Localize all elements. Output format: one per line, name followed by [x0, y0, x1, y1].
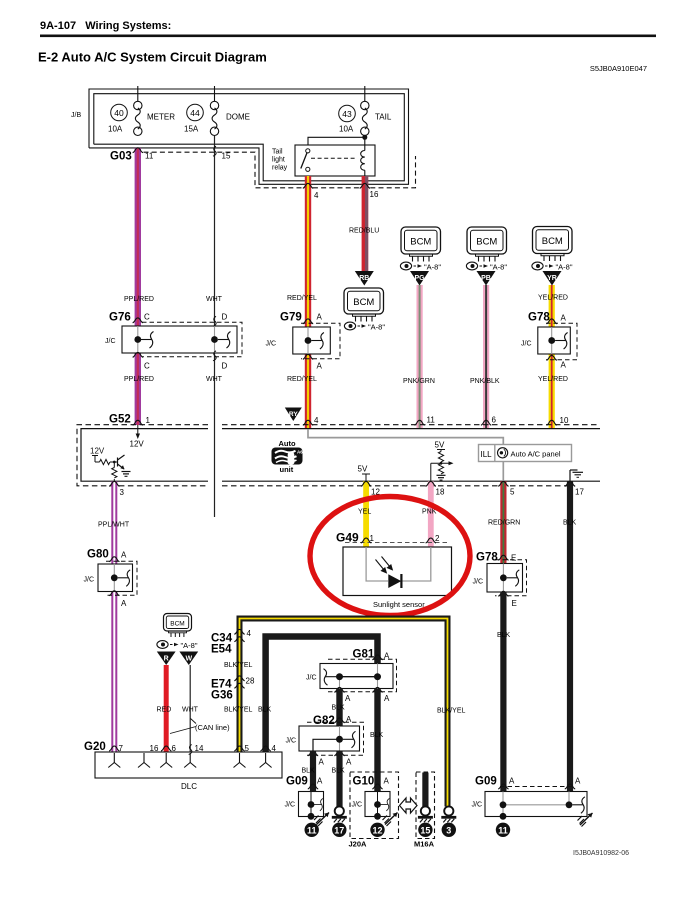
chevron G09 right pin A left: [498, 784, 508, 789]
J20A dashed box: [350, 772, 399, 839]
svg-text:BLK/YEL: BLK/YEL: [437, 708, 466, 715]
chevron G80-A bottom: [109, 591, 119, 596]
svg-text:14: 14: [195, 744, 204, 753]
svg-text:WHT: WHT: [182, 707, 199, 714]
G81 internal link: [340, 676, 378, 678]
svg-text:G49: G49: [336, 531, 359, 545]
BCM top 3 eye to A-8: [532, 262, 573, 271]
J/C G76 dashed outline: [142, 322, 242, 357]
triangle R: [157, 652, 176, 666]
svg-text:E: E: [512, 599, 517, 608]
svg-text:BLK: BLK: [370, 732, 384, 739]
svg-text:A: A: [317, 313, 323, 322]
svg-text:BLK: BLK: [332, 705, 346, 712]
wire BLK G78-E to G09: [500, 592, 506, 792]
svg-text:J/C: J/C: [266, 341, 277, 348]
G82 curl: [343, 731, 356, 748]
G81 junction node right: [374, 673, 381, 680]
svg-text:WHT: WHT: [206, 376, 223, 383]
svg-text:J/C: J/C: [285, 802, 296, 809]
BCM top 1: [401, 227, 441, 254]
wire YEL pin12 to G49-1: [363, 481, 369, 547]
svg-text:5: 5: [245, 744, 250, 753]
G09 right junction node left: [500, 801, 507, 808]
chevron unit pin 17: [565, 481, 575, 486]
wire BLK loop G20-4 to G81-A: [266, 637, 378, 753]
wire RED CAN to G20-6: [164, 665, 169, 752]
svg-text:G09: G09: [286, 776, 308, 788]
svg-text:5V: 5V: [435, 441, 445, 450]
svg-text:BLK/YEL: BLK/YEL: [224, 662, 253, 669]
svg-text:unit: unit: [280, 465, 294, 474]
svg-text:A: A: [384, 652, 390, 661]
svg-text:PNK: PNK: [422, 509, 437, 516]
tail light relay box: [295, 145, 375, 176]
svg-text:Tail: Tail: [272, 149, 283, 156]
wire PPL/RED G76-C to G52-1: [135, 353, 141, 425]
J/C G76 box: [122, 326, 237, 353]
svg-text:12V: 12V: [90, 447, 105, 456]
connector G03 dashed outline: [144, 152, 416, 188]
J/C G82 box: [299, 726, 360, 751]
G10 via wire: [377, 792, 379, 817]
BCM top 2: [467, 227, 507, 254]
svg-text:A: A: [317, 777, 323, 786]
svg-text:"A-8": "A-8": [368, 323, 385, 332]
svg-text:Sunlight sensor: Sunlight sensor: [373, 600, 425, 609]
svg-text:G10: G10: [353, 776, 375, 788]
svg-text:J/C: J/C: [286, 738, 297, 745]
12V arrow from G52-1: [137, 425, 139, 436]
svg-text:YEL/RED: YEL/RED: [538, 295, 568, 302]
svg-text:10A: 10A: [108, 125, 123, 134]
chevron G52-10: [547, 420, 557, 425]
svg-text:"A-8": "A-8": [490, 263, 507, 272]
J/C G81 box: [320, 664, 393, 689]
G76 curl D: [218, 332, 231, 349]
svg-text:A: A: [319, 758, 325, 767]
svg-text:PG: PG: [414, 275, 425, 282]
svg-text:40: 40: [114, 108, 124, 118]
svg-text:BLK: BLK: [563, 520, 577, 527]
svg-text:R: R: [164, 656, 169, 663]
G80 curl: [118, 570, 131, 587]
svg-text:11: 11: [307, 825, 317, 835]
chevron G52-4: [303, 420, 313, 425]
triangle PB: [477, 271, 496, 286]
svg-text:12: 12: [372, 825, 382, 835]
wire YEL/RED BCM3 to G78-A: [549, 285, 555, 327]
G20 DLC box: [95, 752, 282, 778]
BCM small comb: [169, 631, 187, 637]
G49 connector dashed line: [345, 542, 449, 544]
resistor vertical to pin 3: [113, 462, 115, 468]
auto unit dashed connector outline: [77, 425, 598, 486]
svg-text:BCM: BCM: [170, 621, 184, 628]
gray ILL feed wire from RED/YEL: [308, 429, 503, 481]
red highlight ellipse: [310, 497, 470, 616]
BCM top 3: [533, 227, 573, 254]
svg-text:15: 15: [222, 152, 231, 161]
svg-text:1: 1: [146, 416, 151, 425]
chevron G79-A bottom: [303, 354, 313, 359]
G10 curl: [380, 799, 389, 811]
fuse 44 circle: [187, 104, 204, 121]
chevron G82-A bottom right: [334, 751, 344, 756]
svg-text:YR: YR: [547, 275, 557, 282]
chevron G10 pin A: [372, 784, 382, 789]
wire BLK pin17 to G09: [567, 481, 573, 791]
G76 wire via D thin: [214, 326, 216, 353]
relay actuation dashed link: [311, 157, 357, 159]
J/C G80 box: [98, 564, 133, 592]
chevron G09 left pin A: [308, 784, 318, 789]
svg-text:44: 44: [190, 108, 200, 118]
svg-text:G20: G20: [84, 741, 106, 753]
svg-text:G03: G03: [110, 151, 132, 163]
svg-text:WHT: WHT: [206, 296, 223, 303]
header rule: [40, 35, 656, 38]
svg-text:G09: G09: [475, 776, 497, 788]
ring 17 ground bar: [332, 816, 347, 823]
G10 body ground: [383, 813, 398, 827]
chevron G20-14: [189, 745, 192, 755]
svg-text:11: 11: [498, 825, 508, 835]
svg-text:G78: G78: [476, 552, 498, 564]
photodiode light arrows: [376, 557, 393, 573]
svg-text:I5JB0A910982-06: I5JB0A910982-06: [573, 850, 629, 857]
wire RED/BLU relay-16 to BCM: [362, 176, 369, 271]
chevron G09 right pin A right: [565, 784, 575, 789]
ground circle 15: [418, 823, 432, 837]
svg-text:BCM: BCM: [353, 297, 374, 308]
svg-text:Auto A/C panel: Auto A/C panel: [511, 450, 561, 459]
CAN pointer to WHT: [191, 719, 197, 724]
svg-text:A: A: [575, 777, 581, 786]
svg-text:D: D: [222, 313, 228, 322]
svg-text:A: A: [561, 314, 567, 323]
wire PNK/BLK BCM2 to G52-6: [483, 285, 489, 429]
E74 G36 connector marks: [234, 676, 244, 681]
G09 left curl: [314, 799, 323, 811]
BCM top 1 eye to A-8: [400, 262, 441, 271]
wire RED/YEL G79-A to G52-4: [305, 354, 311, 429]
svg-text:12V: 12V: [130, 440, 145, 449]
triangle PG: [410, 271, 429, 286]
svg-text:J20A: J20A: [349, 840, 368, 849]
BCM top 2 eye to A-8: [466, 262, 507, 271]
svg-text:A: A: [317, 362, 323, 371]
triangle RY: [285, 408, 302, 422]
BCM mid eye to A-8: [344, 322, 385, 331]
svg-text:16: 16: [150, 744, 159, 753]
svg-text:RED/YEL: RED/YEL: [287, 376, 317, 383]
Auto unit icon: [272, 448, 304, 465]
svg-text:ILL: ILL: [481, 450, 493, 459]
svg-text:A: A: [384, 777, 390, 786]
svg-text:BLK: BLK: [302, 768, 316, 775]
svg-text:BCM: BCM: [476, 237, 497, 248]
svg-text:28: 28: [246, 677, 255, 686]
double arrow J20A-M16A: [400, 798, 418, 813]
G82 internal link: [313, 739, 340, 751]
G78 lower wire via thin: [502, 564, 504, 593]
chevron G20-5: [234, 746, 244, 751]
BCM mid connector comb: [353, 314, 376, 322]
J/C G09 right box: [485, 792, 587, 817]
svg-text:J/C: J/C: [521, 341, 532, 348]
chevron G76-D top: [213, 316, 216, 326]
svg-text:A: A: [561, 361, 567, 370]
svg-text:3: 3: [446, 825, 451, 835]
svg-text:18: 18: [436, 488, 445, 497]
svg-text:5: 5: [510, 488, 515, 497]
chevron G81-A bottom left: [334, 687, 344, 692]
svg-text:BLK: BLK: [258, 707, 272, 714]
svg-text:DOME: DOME: [226, 113, 250, 122]
wire fuse 43 feed: [364, 86, 366, 102]
svg-text:RED: RED: [157, 707, 172, 714]
DLC fork pin 6: [160, 753, 172, 768]
fuse 43 element: [361, 101, 369, 109]
relay coil: [364, 145, 366, 151]
BCM top 1 connector comb: [410, 254, 433, 262]
J/C G81 dashed outline: [328, 659, 397, 692]
ring 15 ground bar: [418, 816, 433, 823]
svg-text:PB: PB: [481, 275, 491, 282]
ground flag pin 17: [569, 470, 571, 481]
DLC fork pin 7: [108, 753, 120, 768]
ILL lamp symbol: [498, 448, 508, 458]
chevron G82-A bottom left: [308, 751, 318, 756]
unit internal 12V transistor circuit: [90, 447, 105, 463]
svg-text:A: A: [346, 715, 352, 724]
5V divider tap to pin 18: [431, 462, 450, 464]
G80 wire via thin: [113, 564, 115, 592]
svg-text:M16A: M16A: [414, 840, 435, 849]
svg-text:C: C: [144, 362, 150, 371]
G78 upper curl: [555, 333, 568, 350]
svg-text:5V: 5V: [358, 465, 368, 474]
G09 right ground circle 11: [496, 823, 510, 837]
svg-text:9A-107 Wiring Systems:: 9A-107 Wiring Systems:: [40, 20, 171, 32]
G80 junction node: [111, 574, 118, 581]
chevron G76-C bottom: [133, 352, 143, 357]
svg-text:(CAN line): (CAN line): [195, 723, 230, 732]
wire PNK pin18 to G49-2: [428, 481, 434, 547]
svg-text:"A-8": "A-8": [424, 263, 441, 272]
G76 curl C: [141, 332, 154, 349]
wire BLK/YEL loop C34/E54-4 G20-5 to M16A ring: [240, 619, 448, 807]
chevron G52-1: [133, 420, 143, 425]
svg-text:E54: E54: [211, 644, 232, 656]
G09 left ground circle 11: [305, 823, 319, 837]
svg-text:E-2 Auto A/C System Circuit Di: E-2 Auto A/C System Circuit Diagram: [38, 50, 267, 65]
svg-text:BLK: BLK: [332, 768, 346, 775]
svg-text:Auto: Auto: [279, 439, 296, 448]
J/C G78 upper box: [538, 327, 571, 354]
svg-text:2: 2: [435, 534, 440, 543]
J/C G79 dashed outline: [301, 323, 340, 359]
svg-text:PPL/RED: PPL/RED: [124, 376, 154, 383]
J/C G78 lower dashed outline: [495, 560, 527, 596]
chevron G20-6: [161, 746, 171, 751]
svg-text:D: D: [222, 362, 228, 371]
wire RED/YEL relay-4 to G79-A: [305, 176, 311, 327]
chevron unit pin 3: [109, 481, 119, 486]
J/C G09 left box: [299, 792, 324, 817]
chevron G82-A top: [334, 718, 344, 723]
svg-text:11: 11: [145, 152, 154, 161]
resistor horizontal 12V: [100, 459, 110, 464]
svg-text:E: E: [511, 554, 516, 563]
svg-text:PNK/GRN: PNK/GRN: [403, 378, 435, 385]
svg-text:A: A: [121, 599, 127, 608]
wire PNK/GRN BCM1 to G52-11: [417, 285, 423, 429]
DLC fork pin 4: [260, 753, 272, 768]
wire fuse 44 feed: [214, 86, 216, 102]
G78 upper junction node: [548, 337, 555, 344]
svg-text:G82: G82: [313, 715, 335, 727]
DLC fork pin 5: [234, 753, 246, 768]
chevron relay pin 4: [303, 183, 313, 188]
svg-text:16: 16: [370, 190, 379, 199]
chevron unit pin 12: [361, 481, 371, 486]
wire BLK G81 to G82: [336, 689, 342, 727]
G09 right internal link: [503, 804, 569, 806]
svg-text:J/C: J/C: [105, 338, 116, 345]
C34 E54 connector marks: [234, 629, 244, 634]
BCM top 2 connector comb: [476, 254, 499, 262]
wire resistor to transistor base: [110, 461, 118, 463]
wire BLK G82 to ground ring 17: [336, 751, 342, 807]
transistor emitter ground: [122, 472, 131, 477]
svg-text:PPL/WHT: PPL/WHT: [98, 522, 130, 529]
G09 right junction node bottom: [500, 813, 507, 820]
svg-text:A6: A6: [297, 450, 303, 455]
svg-text:10A: 10A: [339, 125, 354, 134]
G09 left via wire: [310, 792, 312, 817]
fuse 44 element: [210, 101, 218, 109]
auto unit box solid: [81, 429, 600, 482]
svg-text:6: 6: [492, 416, 497, 425]
G82 junction node: [336, 736, 343, 743]
svg-text:3: 3: [120, 488, 125, 497]
G78 lower junction node: [500, 574, 507, 581]
ring terminal 3: [444, 806, 453, 815]
G81 curl left: [324, 669, 337, 686]
svg-text:"A-8": "A-8": [181, 641, 198, 650]
triangle YR: [543, 271, 562, 286]
svg-text:17: 17: [334, 825, 344, 835]
chevron G20-4: [260, 746, 270, 751]
svg-text:A: A: [345, 694, 351, 703]
BCM small: [164, 614, 192, 632]
svg-text:15A: 15A: [184, 125, 199, 134]
ring terminal 17: [335, 806, 344, 815]
G76 wire via C thin: [137, 326, 139, 353]
sensor internal wiring: [366, 547, 388, 581]
chevron G78-E bottom: [498, 591, 508, 596]
fuse 43 circle: [339, 105, 356, 122]
DLC fork pin 14: [184, 753, 196, 768]
G79 wire via thin: [307, 327, 309, 354]
BCM top 3 connector comb: [541, 254, 564, 262]
ground circle 17: [332, 823, 346, 837]
node relay feed junction: [362, 135, 367, 140]
wire fuse 43 to relay junction: [364, 136, 366, 146]
chevron relay pin 16: [360, 183, 370, 188]
triangle RB: [355, 271, 374, 286]
svg-text:G79: G79: [280, 312, 302, 324]
svg-text:RB: RB: [359, 275, 369, 282]
chevron G80-A top: [109, 557, 119, 562]
wire RED/GRN pin5 to G78-E: [500, 481, 506, 563]
svg-text:relay: relay: [272, 165, 288, 172]
chevron G20-7: [109, 746, 119, 751]
svg-text:A: A: [384, 694, 390, 703]
svg-text:W: W: [185, 656, 192, 663]
svg-text:43: 43: [342, 109, 352, 119]
G79 curl: [311, 333, 324, 350]
ring 3 ground bar: [441, 816, 456, 823]
svg-text:J/C: J/C: [306, 675, 317, 682]
chevron G52-6: [481, 420, 491, 425]
G10 ground circle 12: [370, 823, 384, 837]
sunlight sensor box: [343, 547, 452, 596]
svg-text:METER: METER: [147, 113, 175, 122]
G09 right dashed pin line: [500, 786, 574, 788]
G09 right body ground: [578, 813, 593, 827]
chevron G03-11: [133, 148, 143, 153]
svg-text:G36: G36: [211, 690, 233, 702]
chevron G81-A bottom right: [372, 687, 382, 692]
svg-text:light: light: [272, 157, 285, 164]
svg-text:11: 11: [427, 416, 436, 425]
chevron G78-E top: [498, 555, 508, 560]
svg-text:DLC: DLC: [181, 782, 197, 791]
wire WHT CAN to G20-14: [189, 665, 191, 752]
svg-text:PNK/BLK: PNK/BLK: [470, 378, 500, 385]
wire WHT fuse44 to G76-D: [214, 136, 216, 327]
G09 right junction node right: [566, 801, 573, 808]
wire BLK G82 to G09 left: [310, 751, 316, 792]
svg-text:J/C: J/C: [352, 802, 363, 809]
svg-text:A: A: [346, 758, 352, 767]
J/C G79 box: [293, 327, 331, 354]
svg-text:4: 4: [247, 629, 252, 638]
fuse 40 circle: [111, 104, 128, 121]
CAN pointer to RED: [170, 727, 196, 734]
chevron G78-A top: [547, 319, 557, 324]
J/C G82 dashed outline: [307, 722, 364, 755]
svg-text:G52: G52: [109, 414, 131, 426]
svg-text:G78: G78: [528, 312, 550, 324]
svg-text:7: 7: [119, 744, 124, 753]
svg-text:J/C: J/C: [84, 577, 95, 584]
BCM small eye A-8: [157, 641, 198, 650]
G76 junction node C: [134, 336, 141, 343]
svg-text:RED/YEL: RED/YEL: [287, 295, 317, 302]
wire PPL/RED G03-11 to G76-C: [135, 148, 141, 326]
svg-text:S5JB0A910E047: S5JB0A910E047: [590, 64, 647, 73]
svg-text:BCM: BCM: [542, 236, 563, 247]
BCM mid (RB): [344, 288, 384, 314]
wire fuse 40 feed: [137, 86, 139, 102]
G78 upper wire via thin: [551, 327, 553, 354]
svg-text:15: 15: [420, 825, 430, 835]
svg-text:G76: G76: [109, 312, 131, 324]
